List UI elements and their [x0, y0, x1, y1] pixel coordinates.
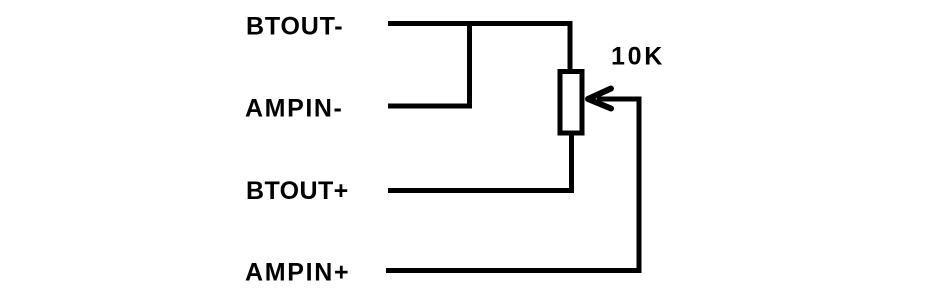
svg-text:AMPIN-: AMPIN- [245, 95, 343, 123]
wire junction vertical BTOUT- / AMPIN- [467, 24, 472, 107]
svg-text:AMPIN+: AMPIN+ [245, 259, 350, 287]
potentiometer R1 10K body [560, 72, 582, 134]
svg-text:BTOUT-: BTOUT- [246, 13, 343, 41]
svg-text:10K: 10K [611, 43, 665, 71]
wire AMPIN- [388, 104, 472, 109]
svg-text:BTOUT+: BTOUT+ [246, 177, 349, 205]
wire wiper to AMPIN+ [386, 99, 639, 271]
potentiometer wiper arrow [588, 89, 611, 109]
wire BTOUT- to potentiometer top [388, 24, 570, 70]
wire potentiometer bottom lead to BTOUT+ [388, 135, 572, 191]
